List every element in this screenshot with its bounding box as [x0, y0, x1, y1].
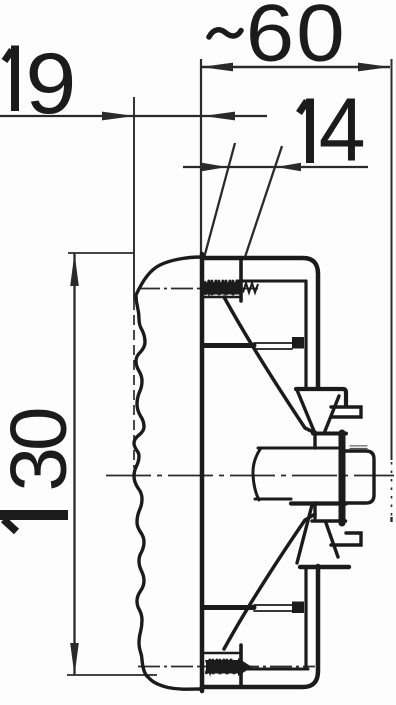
svg-text:3: 3: [0, 447, 83, 492]
svg-text:4: 4: [319, 80, 366, 180]
svg-text:0: 0: [0, 407, 83, 452]
